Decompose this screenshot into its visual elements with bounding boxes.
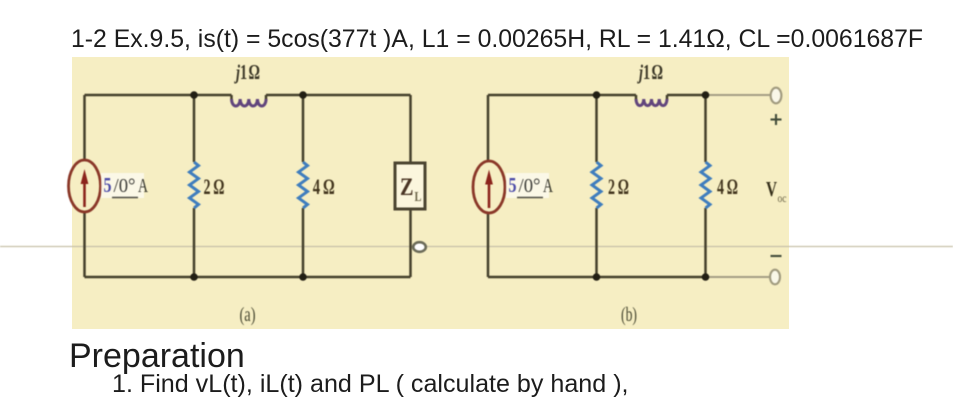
svg-text:2 Ω: 2 Ω (204, 174, 225, 199)
svg-text:(a): (a) (240, 304, 256, 326)
svg-text:j1Ω: j1Ω (637, 60, 663, 84)
svg-text:5: 5 (104, 173, 112, 197)
svg-text:A: A (138, 175, 148, 197)
svg-text:/0°: /0° (114, 175, 136, 197)
svg-text:/0°: /0° (519, 175, 541, 197)
svg-text:V: V (766, 177, 777, 201)
svg-text:oc: oc (778, 193, 787, 205)
svg-text:A: A (543, 175, 553, 197)
svg-text:L: L (415, 190, 422, 205)
svg-text:j1Ω: j1Ω (234, 60, 260, 84)
svg-text:4 Ω: 4 Ω (313, 174, 335, 199)
svg-text:Z: Z (400, 174, 414, 201)
svg-text:4 Ω: 4 Ω (717, 174, 738, 199)
svg-text:2 Ω: 2 Ω (608, 174, 629, 199)
svg-text:(b): (b) (621, 304, 637, 326)
svg-text:5: 5 (509, 173, 517, 197)
